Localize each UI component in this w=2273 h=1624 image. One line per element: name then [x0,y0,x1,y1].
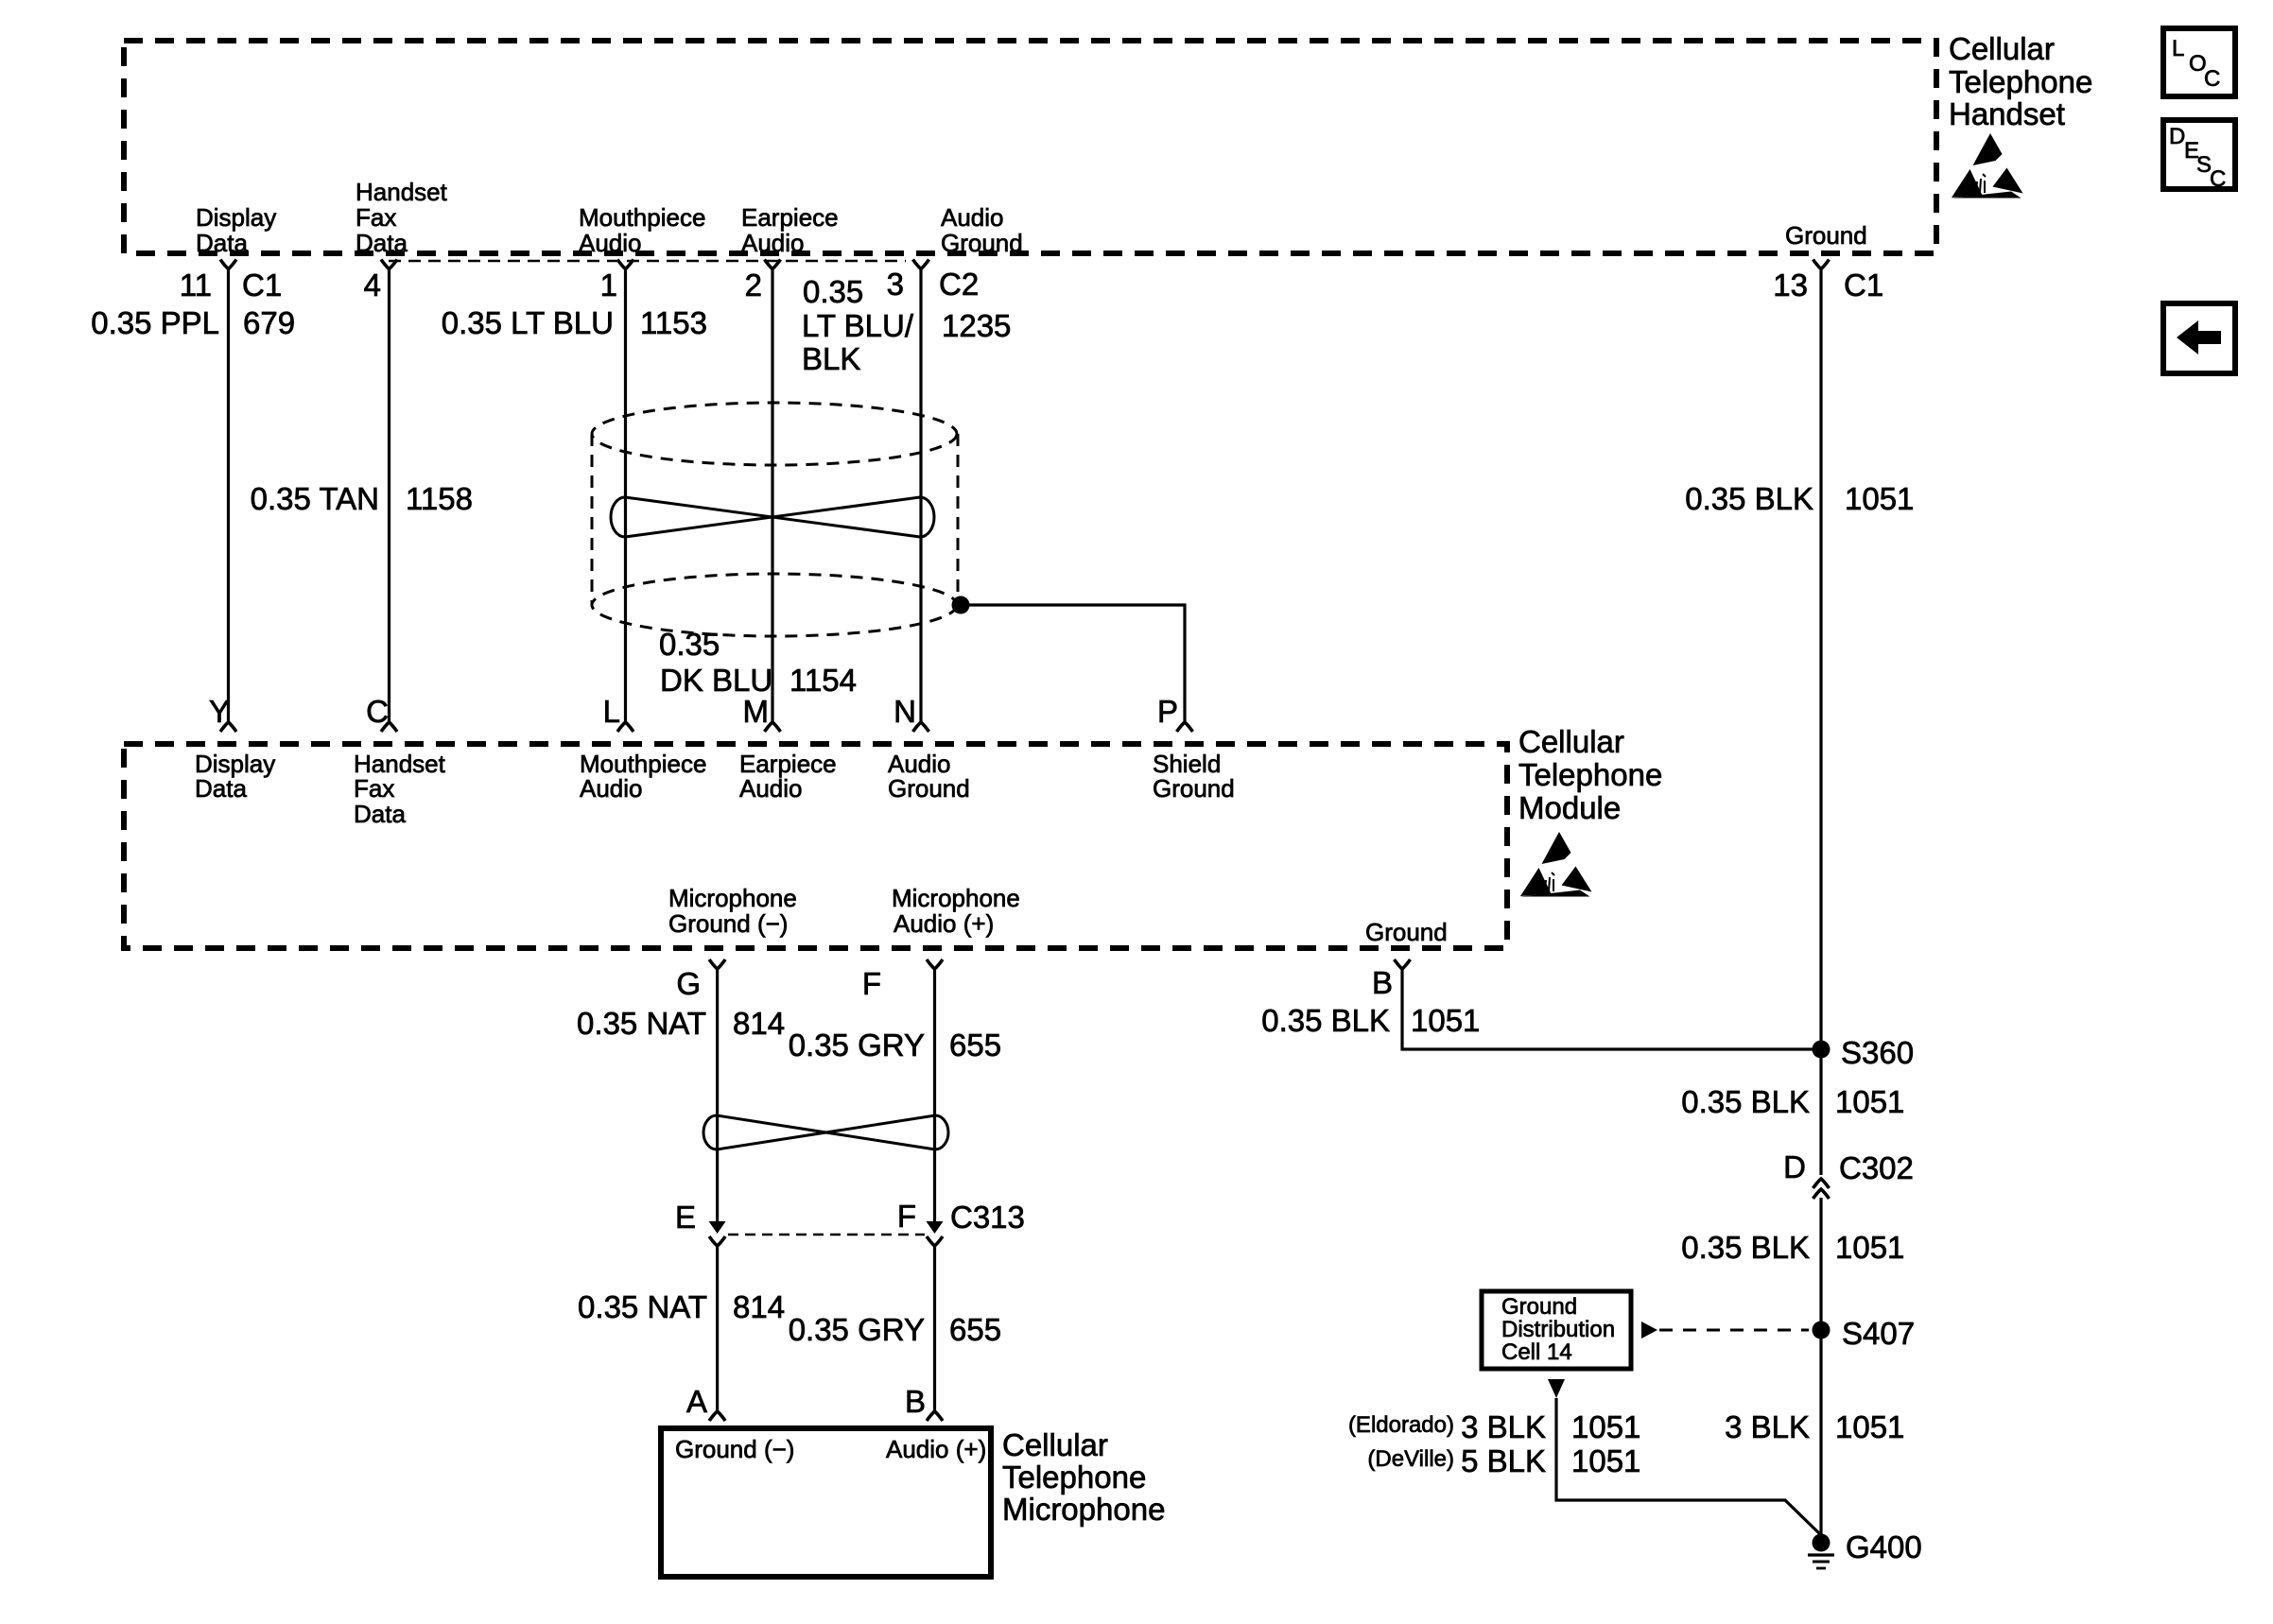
svg-text:B: B [1372,965,1393,1000]
svg-text:1051: 1051 [1571,1443,1640,1478]
svg-text:A: A [686,1384,707,1419]
svg-text:P: P [1157,694,1178,729]
wire: Display Data 0.35 PPL 679 [227,269,230,723]
svg-text:(Eldorado): (Eldorado) [1348,1412,1454,1438]
handset pin label: Handset Fax Data [356,178,448,257]
box: Cellular Telephone Microphone [661,1428,991,1577]
splice S407 [1813,1316,1916,1351]
wire: Mouthpiece Audio 0.35 LT BLU 1153 [624,269,627,723]
svg-text:Ground: Ground [941,229,1023,257]
svg-text:Data: Data [195,774,247,803]
svg-text:Handset: Handset [1949,96,2065,131]
connector pin B (microphone) [905,1384,943,1421]
connector pin G (Y) [709,959,725,969]
svg-text:L: L [603,694,620,729]
svg-text:Earpiece: Earpiece [741,203,839,232]
svg-text:814: 814 [733,1006,785,1041]
svg-text:S360: S360 [1841,1035,1914,1070]
LOC box [2163,28,2235,96]
ESD symbol (module) [1520,832,1592,897]
svg-text:C2: C2 [939,267,979,302]
handset pin label: Earpiece Audio [741,203,839,257]
DESC box [2163,120,2235,192]
svg-text:Ground: Ground [1153,774,1235,803]
svg-text:Data: Data [356,229,408,257]
svg-text:0.35 GRY: 0.35 GRY [789,1312,925,1347]
svg-text:Microphone: Microphone [1002,1492,1165,1527]
svg-text:C: C [366,694,389,729]
connector pin 4 (Y) [381,260,397,269]
svg-text:1051: 1051 [1835,1409,1904,1444]
svg-text:C302: C302 [1839,1150,1914,1185]
ground G400 [1808,1529,1922,1568]
connector pin F (Y) [927,959,943,969]
label: Cellular Telephone Microphone [1002,1427,1165,1527]
module pin label: Shield Ground [1153,750,1235,803]
svg-text:13: 13 [1773,268,1808,302]
svg-text:Cellular: Cellular [1949,31,2055,66]
value label 0.35 PPL 679 [91,305,295,340]
svg-text:Audio (+): Audio (+) [886,1435,986,1463]
svg-text:Distribution: Distribution [1501,1317,1615,1342]
svg-text:1051: 1051 [1571,1409,1640,1444]
svg-text:679: 679 [243,305,295,340]
svg-text:0.35 BLK: 0.35 BLK [1685,481,1813,516]
svg-text:0.35 GRY: 0.35 GRY [789,1028,925,1063]
svg-text:Audio (+): Audio (+) [894,909,994,938]
svg-text:E: E [675,1200,696,1235]
wire: Audio Ground 0.35 LT BLU/BLK 1235 [919,269,922,723]
svg-text:Cell 14: Cell 14 [1501,1339,1572,1365]
svg-text:G400: G400 [1846,1529,1922,1564]
value label 0.35 NAT 814 [577,1006,785,1041]
splice S360 [1813,1035,1915,1070]
svg-text:1158: 1158 [406,481,473,516]
svg-text:Audio: Audio [739,774,803,803]
wire: handset ground 0.35 BLK 1051 (upper) [1819,269,1822,1176]
svg-text:Fax: Fax [356,203,396,232]
svg-text:1051: 1051 [1835,1230,1904,1265]
svg-text:Ground (−): Ground (−) [668,909,788,938]
svg-text:Cellular: Cellular [1002,1427,1108,1462]
wire: 0.35 BLK 1051 (below C302) [1819,1198,1822,1543]
svg-text:Ground: Ground [1785,221,1867,250]
svg-text:Telephone: Telephone [1002,1460,1146,1494]
svg-text:5 BLK: 5 BLK [1461,1443,1546,1478]
connector pin A [686,1384,725,1421]
connector pin 13 C1 (Y) [1813,260,1830,269]
value label 0.35 BLK 1051 [1681,1230,1904,1265]
svg-text:0.35 NAT: 0.35 NAT [577,1006,706,1041]
svg-text:1235: 1235 [942,308,1011,343]
svg-text:1: 1 [600,268,617,302]
junction dot (shield drain) [952,596,970,614]
svg-text:Telephone: Telephone [1518,757,1662,792]
svg-text:Fax: Fax [354,774,394,803]
module pin label: Microphone Ground (-) [668,884,797,938]
module pin label: Handset Fax Data [354,750,446,828]
box: Cellular Telephone Handset (dashed) [124,41,1936,253]
svg-text:N: N [894,694,916,729]
connector pin 3 C2 (Y) [913,260,929,269]
svg-text:Cellular: Cellular [1518,724,1624,759]
svg-text:0.35 NAT: 0.35 NAT [578,1289,707,1324]
wire: Earpiece Audio 0.35 DK BLU 1154 [771,269,773,723]
svg-text:Ground: Ground [1365,918,1448,946]
svg-text:L: L [2172,36,2184,61]
svg-text:0.35 BLK: 0.35 BLK [1261,1003,1390,1038]
svg-text:3: 3 [887,267,904,302]
svg-text:Ground (−): Ground (−) [675,1435,794,1463]
svg-text:Audio: Audio [580,774,643,803]
svg-text:0.35 BLK: 0.35 BLK [1681,1230,1810,1265]
connector C313 pin E [675,1200,726,1246]
svg-text:LT BLU/: LT BLU/ [802,308,914,343]
box: Cellular Telephone Module (dashed) [124,744,1507,948]
shield (dashed cylinder) [592,403,958,636]
svg-text:0.35: 0.35 [803,274,863,309]
module pin label: Microphone Audio (+) [892,884,1020,938]
value label 0.35 LT BLU/BLK 1235 [802,274,1011,376]
value label 0.35 BLK 1051 [1681,1084,1904,1119]
value label 0.35 BLK 1051 [1685,481,1914,516]
svg-text:D: D [2169,124,2185,149]
svg-text:Microphone: Microphone [892,884,1020,912]
svg-text:814: 814 [733,1289,785,1324]
thin dashed connector line C2 group [389,260,906,263]
box: Ground Distribution Cell 14 [1482,1291,1631,1369]
svg-text:C1: C1 [242,268,282,302]
connector C302 pin D [1783,1149,1914,1199]
value label 0.35 LT BLU 1153 [442,305,707,340]
wire: Microphone Ground 0.35 NAT 814 (upper) [716,969,719,1231]
svg-text:655: 655 [949,1028,1001,1063]
svg-text:B: B [905,1384,926,1419]
value label 0.35 BLK 1051 [1261,1003,1480,1038]
svg-text:11: 11 [180,268,212,302]
svg-text:Module: Module [1518,790,1621,825]
svg-text:D: D [1783,1149,1806,1184]
svg-text:0.35 LT BLU: 0.35 LT BLU [442,305,614,340]
svg-text:2: 2 [745,268,762,302]
svg-text:Audio: Audio [579,229,642,257]
label: Cellular Telephone Handset [1949,31,2092,131]
wire: shield drain to P [961,605,1185,722]
ESD symbol (handset) [1952,133,2023,199]
svg-text:Data: Data [196,229,248,257]
value label 0.35 NAT 814 [578,1289,785,1324]
svg-text:1051: 1051 [1411,1003,1480,1038]
wire: module ground 0.35 BLK 1051 to S360 [1402,969,1821,1049]
module pin label: Audio Ground [888,750,970,803]
svg-text:0.35 TAN: 0.35 TAN [251,481,379,516]
pin number 11 / C1 [180,268,282,302]
svg-text:0.35 PPL: 0.35 PPL [91,305,219,340]
value label 0.35 GRY 655 [789,1028,1001,1063]
dashed in-line connector C313 [728,1234,925,1236]
connector pin 1 (Y) [617,260,633,269]
svg-text:3 BLK: 3 BLK [1461,1409,1546,1444]
handset pin label: Mouthpiece Audio [579,203,705,257]
connector pin 11 C1 (Y) [220,260,236,269]
svg-text:Audio: Audio [741,229,805,257]
svg-text:Mouthpiece: Mouthpiece [579,203,705,232]
svg-text:Display: Display [196,203,276,232]
value label 0.35 GRY 655 [789,1312,1001,1347]
twisted pair symbol (microphone) [703,1115,948,1149]
svg-text:DK BLU: DK BLU [660,663,772,698]
value label (Eldorado) 3 BLK 1051 [1348,1409,1640,1444]
svg-text:1051: 1051 [1835,1084,1904,1119]
value label (DeVille) 5 BLK 1051 [1367,1443,1640,1478]
svg-text:Ground: Ground [1501,1294,1577,1320]
svg-text:M: M [743,694,770,729]
twisted pair symbol (handset audio) [611,497,934,537]
wire: ground distribution to G400 [1556,1398,1821,1535]
svg-text:Telephone: Telephone [1949,64,2092,99]
svg-text:F: F [862,966,881,1001]
svg-text:S407: S407 [1842,1316,1915,1351]
svg-text:C: C [2204,66,2220,92]
svg-text:Ground: Ground [888,774,970,803]
svg-text:(DeVille): (DeVille) [1367,1446,1454,1472]
module pin label: Mouthpiece Audio [580,750,706,803]
arrow to S407 [1641,1322,1657,1339]
svg-text:1051: 1051 [1845,481,1914,516]
arrow from Ground Distribution box [1548,1379,1565,1398]
svg-text:Audio: Audio [941,203,1004,232]
module pin label: Display Data [195,750,275,803]
wire: Microphone Audio 0.35 GRY 655 (upper) [933,969,936,1231]
svg-text:C1: C1 [1844,268,1883,302]
label: Cellular Telephone Module [1518,724,1662,825]
dashed wire to S407 [1659,1329,1809,1332]
value label 0.35 TAN 1158 [251,481,473,516]
svg-text:G: G [676,966,701,1001]
wire: 0.35 GRY 655 (lower) [933,1246,936,1411]
svg-text:BLK: BLK [802,341,860,376]
value label 3 BLK 1051 [1725,1409,1904,1444]
svg-text:C313: C313 [950,1200,1025,1235]
connector pin 2 (Y) [765,260,781,269]
handset pin label: Audio Ground [941,203,1023,257]
module pin label: Earpiece Audio [739,750,837,803]
pin number 3 / C2 [887,267,980,302]
svg-text:655: 655 [949,1312,1001,1347]
arrow box (back) [2163,303,2235,373]
svg-text:Data: Data [354,800,406,828]
pin number 13 / C1 [1773,268,1883,302]
connector C313 pin F [897,1199,1025,1246]
connector pin B module ground (Y) [1395,959,1411,969]
svg-text:C: C [2210,166,2226,192]
value label 0.35 DK BLU 1154 [659,627,857,698]
wire: Handset Fax Data 0.35 TAN 1158 [388,269,390,723]
svg-text:Handset: Handset [356,178,448,206]
svg-text:4: 4 [364,268,381,302]
svg-text:3 BLK: 3 BLK [1725,1409,1810,1444]
svg-text:Microphone: Microphone [668,884,797,912]
svg-text:0.35 BLK: 0.35 BLK [1681,1084,1810,1119]
handset pin label: Display Data [196,203,276,257]
wire: 0.35 NAT 814 (lower) [716,1246,719,1411]
svg-text:1154: 1154 [789,663,857,698]
svg-text:1153: 1153 [640,305,707,340]
svg-text:F: F [897,1199,916,1234]
